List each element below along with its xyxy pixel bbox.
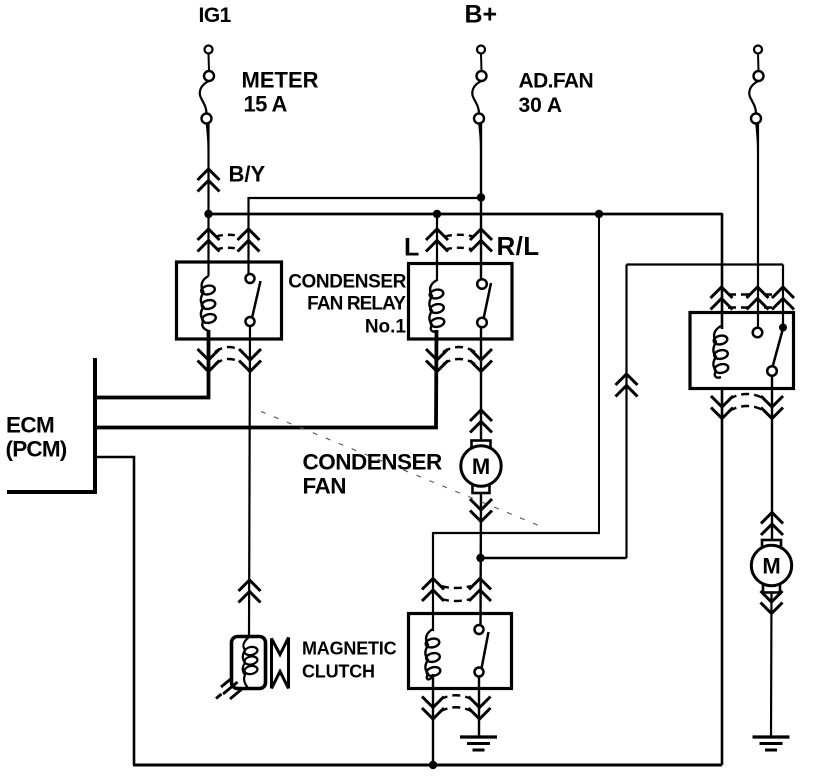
wire bottom relay switch lower lead to ground	[478, 676, 480, 737]
wire horizontal y=558 from motor junction	[481, 557, 627, 559]
connector dashed ties above bottom relay	[441, 586, 471, 601]
wire right relay contact to add fan motor	[771, 375, 773, 541]
fuse METER 15A	[205, 46, 213, 54]
connector chevrons pair into left relay, switch side	[238, 229, 260, 252]
condenser fan motor M	[472, 441, 491, 452]
svg-text:30 A: 30 A	[519, 94, 563, 117]
right relay NO contact	[753, 328, 763, 338]
connector chevrons on IG1 wire below B/Y	[198, 169, 220, 192]
ECM (PCM) box outline	[7, 358, 95, 492]
junction dot IG1 bus x=208	[204, 210, 212, 218]
left relay coil	[201, 276, 209, 331]
svg-text:CONDENSER: CONDENSER	[288, 272, 406, 293]
svg-text:(PCM): (PCM)	[6, 437, 67, 462]
connector chevrons below left relay, switch side	[239, 349, 261, 372]
connector chevrons into right relay, contact	[747, 287, 769, 310]
magnetic clutch pulley symbol	[272, 638, 289, 689]
right relay switch common contact	[767, 366, 777, 376]
wire middle-relay coil feed vertical	[436, 214, 438, 281]
connector chevrons on riser x=626	[616, 374, 638, 397]
connector chevrons above condenser fan motor	[470, 410, 492, 433]
wire add fan motor to ground	[770, 591, 773, 737]
svg-text:B/Y: B/Y	[229, 162, 266, 187]
wire horizontal y=533 to bottom relay coil	[433, 532, 600, 534]
svg-text:IG1: IG1	[199, 4, 232, 27]
svg-text:MAGNETIC: MAGNETIC	[302, 639, 397, 659]
connector chevrons into right relay, pivot	[772, 287, 794, 310]
wire horizontal y=264 to right relay pivot	[627, 263, 784, 265]
bottom relay switch top contact	[475, 625, 484, 634]
connector chevrons below right relay, switch side	[761, 396, 783, 419]
connector dashed arcs below right relay	[729, 394, 765, 411]
crease dashed diagonal line	[261, 412, 545, 529]
connector dashed arcs below left relay	[215, 347, 243, 364]
bottom relay switch blade	[482, 632, 489, 669]
right relay switch blade	[773, 329, 784, 368]
junction dot middle relay coil feed	[433, 210, 441, 218]
wire condenser fan motor upper lead	[480, 327, 482, 441]
ECM pin 1 wire to left relay coil	[95, 330, 209, 398]
wire B+ vertical feed	[480, 124, 482, 284]
connector dashed tie left relay pair	[216, 235, 241, 250]
connector chevrons above bottom relay, coil side	[422, 579, 444, 602]
middle relay coil	[429, 280, 437, 332]
wire right-relay coil feed vertical	[721, 213, 724, 329]
connector chevrons above magnetic clutch	[239, 580, 261, 603]
ECM pin 2 wire to middle relay coil	[95, 330, 437, 428]
junction dot B+ branch	[477, 193, 485, 201]
magnetic clutch chassis hatching	[216, 678, 243, 700]
svg-text:CLUTCH: CLUTCH	[302, 662, 375, 682]
svg-text:FAN RELAY: FAN RELAY	[307, 294, 406, 315]
wire IG1 vertical feed	[207, 124, 209, 276]
connector chevrons into right relay, coil	[711, 287, 733, 310]
connector chevrons pair into left relay, coil side	[198, 229, 220, 252]
wire right relay pivot feed vertical	[782, 265, 784, 328]
connector chevrons below middle relay, coil side	[426, 349, 448, 372]
relay box magnetic clutch relay bottom	[409, 614, 512, 689]
svg-text:M: M	[762, 554, 780, 579]
connector chevrons above add fan motor	[761, 513, 783, 536]
svg-text:B+: B+	[465, 1, 498, 29]
relay box add fan relay right	[690, 313, 794, 389]
ground symbol under add fan motor	[753, 735, 790, 738]
connector dashed arcs below middle relay	[443, 347, 475, 364]
fuse add fan right	[754, 46, 762, 54]
bottom relay coil	[425, 629, 433, 679]
connector chevrons below right relay, coil side	[711, 396, 733, 419]
connector chevrons below bottom relay, coil side	[422, 697, 444, 720]
svg-text:ECM: ECM	[6, 413, 54, 438]
svg-text:AD.FAN: AD.FAN	[519, 70, 594, 93]
wire left relay switch to magnetic clutch	[249, 326, 250, 638]
add fan motor M	[762, 540, 781, 551]
relay box condenser fan relay No.1 middle	[409, 264, 513, 340]
wire left-relay switch feed vertical from B+ branch	[247, 197, 249, 279]
svg-text:15 A: 15 A	[244, 92, 288, 117]
ground bus wire y=765	[133, 764, 722, 767]
connector dashed ties right relay triple	[728, 295, 777, 308]
junction dot x=599	[595, 210, 603, 218]
connector chevrons below add fan motor	[761, 591, 783, 614]
wire bottom relay coil lower lead to ground bus	[432, 674, 434, 765]
connector chevrons below condenser fan motor	[470, 499, 492, 522]
connector chevrons below middle relay, switch side	[470, 349, 492, 372]
junction dot ground bus x=433	[429, 761, 437, 769]
ground symbol under bottom relay	[460, 735, 497, 738]
left relay switch blade	[252, 281, 261, 318]
wire condenser fan motor lower lead to bottom relay switch	[479, 491, 482, 626]
wire horizontal IG1 bus y=214	[208, 213, 723, 216]
svg-text:FAN: FAN	[303, 474, 347, 499]
right relay coil	[713, 326, 721, 378]
connector dashed arcs below bottom relay	[440, 695, 472, 711]
ECM pin 3 wire down to ground bus	[95, 457, 134, 765]
junction dot motor output y=558	[476, 554, 484, 562]
wire vertical x=626 riser	[625, 265, 627, 559]
connector chevrons into middle relay, coil side	[426, 229, 448, 252]
svg-text:METER: METER	[242, 68, 319, 93]
middle relay switch top contact	[477, 279, 487, 289]
svg-text:CONDENSER: CONDENSER	[303, 450, 443, 475]
relay box CONDENSER FAN RELAY No.1 left (meter relay)	[177, 262, 282, 339]
connector chevrons above bottom relay, switch side	[469, 579, 491, 602]
connector chevrons below bottom relay, switch side	[469, 697, 491, 720]
left relay switch top contact	[246, 274, 255, 283]
right relay pivot dot	[779, 324, 787, 332]
svg-text:No.1: No.1	[365, 317, 407, 338]
middle relay switch blade	[484, 283, 492, 319]
wire vertical x=599 from IG1 bus down	[598, 214, 600, 533]
left relay switch bottom contact	[246, 317, 255, 326]
middle relay switch bottom contact	[477, 318, 487, 328]
connector dashed tie middle relay pair	[445, 235, 473, 250]
connector chevrons below left relay, coil side	[198, 349, 220, 372]
wire horizontal B+ branch y=197	[249, 197, 482, 199]
wire bottom-relay coil feed vertical	[432, 532, 434, 631]
magnetic clutch coil box	[232, 637, 266, 689]
wire right fuse to right relay contact	[757, 124, 759, 329]
wire right relay switch-common down to ground bus	[721, 388, 724, 765]
fuse AD.FAN 30A	[477, 46, 485, 54]
svg-text:L: L	[404, 234, 419, 262]
magnetic clutch internal coil	[243, 637, 249, 688]
svg-text:R/L: R/L	[497, 231, 540, 261]
svg-text:M: M	[472, 454, 490, 479]
bottom relay switch bottom contact	[475, 668, 484, 677]
connector chevrons into middle relay, switch side	[470, 229, 492, 252]
